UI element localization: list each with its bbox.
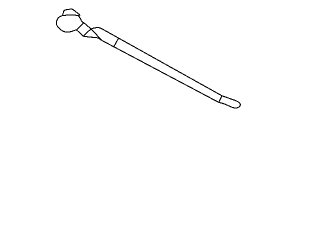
wiper arm line-art diagram [0,0,300,122]
pivot joint diamond [77,23,92,37]
wiper arm head: beak bottom/inner line [62,14,78,17]
tip paddle cap [219,96,241,108]
elbow: bottom segment to arm [83,36,102,40]
elbow: top segment to arm [91,28,103,30]
neck curve from hook tip to pivot joint [78,16,84,23]
joint corner edge down to arm bottom [91,29,101,40]
step tick across arm [114,39,118,47]
arm top edge [103,29,222,96]
arm bottom edge [102,40,219,102]
tip transverse line [219,96,222,103]
wiper arm head: left and bottom outline [56,16,76,32]
wiper arm head: beak/hook top outline [62,9,79,16]
